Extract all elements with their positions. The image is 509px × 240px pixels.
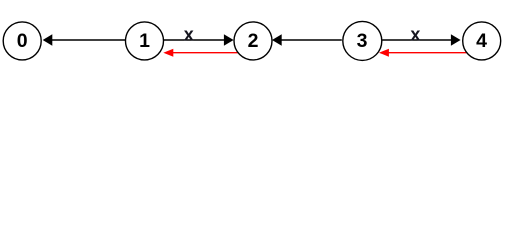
wire: black arrow from node 1 to node 2 (crossed out) (163, 34, 234, 46)
node 1 circle (126, 22, 164, 60)
svg-text:0: 0 (17, 30, 28, 52)
node 0 circle (3, 22, 41, 60)
linked-list diagram: nodes 0-4 with next pointers, two crossed-out links and two red reversed links (0, 0, 509, 79)
wire: red arrow from node 4 back to node 3 (379, 49, 467, 57)
svg-text:x: x (410, 24, 420, 44)
svg-text:3: 3 (357, 30, 368, 52)
wire: black arrow from node 3 to node 4 (crossed out) (382, 34, 460, 46)
svg-text:1: 1 (139, 30, 150, 52)
svg-text:2: 2 (248, 30, 259, 52)
node 2 circle (234, 22, 272, 60)
wire: red arrow from node 2 back to node 1 (163, 49, 238, 57)
wire: black arrow from node 3 to node 2 (272, 34, 342, 46)
svg-text:x: x (184, 24, 194, 44)
wire: black arrow from node 1 to node 0 (43, 34, 127, 46)
svg-text:4: 4 (476, 30, 487, 52)
node 3 circle (343, 21, 382, 60)
node 4 circle (463, 22, 501, 60)
